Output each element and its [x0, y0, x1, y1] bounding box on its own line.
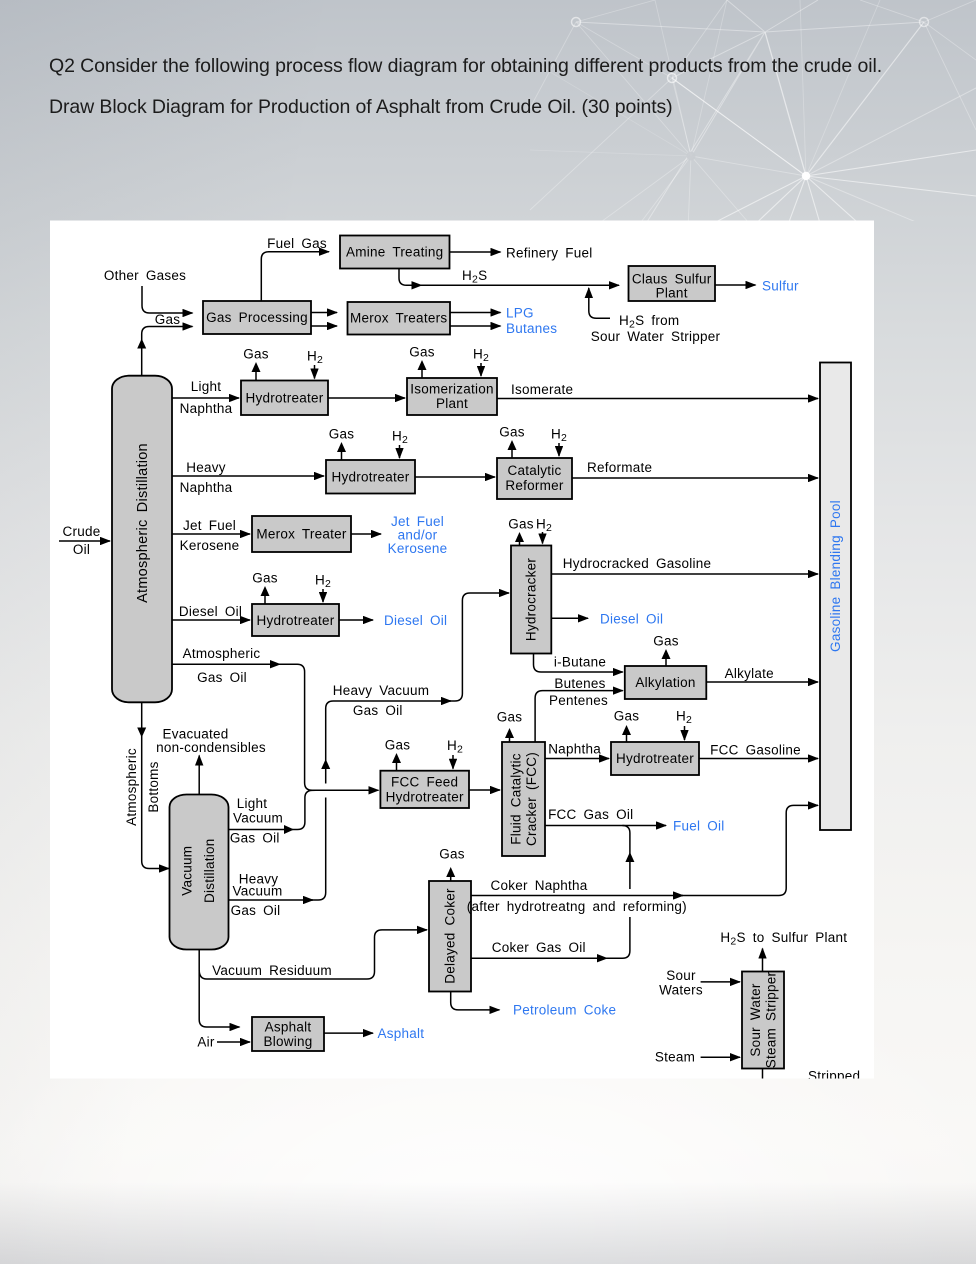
wire: jet fuel kerosene [172, 533, 250, 535]
wire: refinery fuel [450, 251, 501, 253]
stub: gas up HT1 [255, 371, 257, 381]
wire: HT1 to isomerization [328, 397, 405, 399]
svg-text:Catalytic: Catalytic [507, 463, 561, 478]
svg-text:Steam: Steam [655, 1050, 695, 1065]
svg-text:non-condensibles: non-condensibles [156, 740, 266, 755]
wire: diesel oil out [339, 619, 373, 621]
title line 2 [49, 96, 673, 119]
wire: atmospheric bottoms [142, 702, 169, 868]
box: Fluid Catalytic Cracker [502, 742, 545, 856]
svg-text:Vacuum: Vacuum [232, 884, 282, 899]
wire: ffht to fcc [469, 789, 500, 791]
svg-text:Stripped: Stripped [808, 1069, 860, 1084]
wire: crude oil feed [59, 540, 110, 542]
svg-text:Butanes: Butanes [506, 321, 557, 336]
svg-text:(after hydrotreatng and reform: (after hydrotreatng and reforming) [467, 899, 687, 914]
svg-text:Bottoms: Bottoms [146, 761, 161, 812]
wire: butenes pentenes [535, 691, 623, 742]
box: Merox Treater [252, 516, 351, 552]
arrowhead: bottoms down [137, 728, 146, 738]
svg-text:Gas Oil: Gas Oil [230, 831, 280, 846]
svg-text:Gas: Gas [385, 738, 411, 753]
box: Claus Sulfur Plant [629, 266, 716, 301]
svg-text:Fuel Gas: Fuel Gas [267, 236, 327, 251]
svg-text:Isomerization: Isomerization [410, 382, 494, 397]
svg-text:Atmospheric Distillation: Atmospheric Distillation [135, 443, 151, 603]
svg-text:Crude: Crude [62, 524, 100, 539]
svg-text:Gas: Gas [252, 571, 278, 586]
wire: fuel gas line [261, 252, 329, 301]
box: FCC Feed Hydrotreater [380, 771, 469, 808]
svg-text:FCC Gasoline: FCC Gasoline [710, 743, 801, 758]
stub: H2 down HT2 [399, 445, 401, 458]
svg-text:Cracker (FCC): Cracker (FCC) [524, 752, 539, 846]
svg-text:Reformer: Reformer [505, 478, 564, 493]
svg-text:Sour Water: Sour Water [748, 983, 763, 1057]
arrowhead: gas up [137, 339, 146, 349]
svg-text:LPG: LPG [506, 306, 534, 321]
svg-text:Gas Processing: Gas Processing [206, 310, 308, 325]
svg-text:Refinery Fuel: Refinery Fuel [506, 246, 593, 261]
box: Hydrotreater 1 [241, 381, 328, 416]
svg-text:Plant: Plant [656, 286, 688, 301]
svg-text:Merox Treaters: Merox Treaters [350, 311, 447, 326]
arrowhead: hvgo up [321, 759, 330, 769]
svg-text:Diesel Oil: Diesel Oil [384, 613, 447, 628]
box: Alkylation [625, 666, 707, 699]
stub: H2 down ffht [452, 755, 454, 769]
wire: vacuum residuum [199, 950, 239, 1028]
svg-text:Alkylate: Alkylate [725, 666, 774, 681]
svg-text:Claus Sulfur: Claus Sulfur [632, 272, 712, 287]
svg-text:Naphtha: Naphtha [180, 480, 233, 495]
wire: heavy naphtha [172, 475, 324, 477]
svg-text:Hydrotreater: Hydrotreater [616, 751, 694, 766]
svg-text:Kerosene: Kerosene [180, 538, 240, 553]
wire: gas processing to merox 2 [311, 325, 337, 327]
svg-text:Gas: Gas [243, 347, 269, 362]
svg-text:Asphalt: Asphalt [378, 1026, 425, 1041]
stub: gas up reformer [511, 449, 513, 458]
stub: gas up alkylation [665, 658, 667, 666]
svg-text:Gas: Gas [409, 345, 435, 360]
svg-text:H2S from: H2S from [619, 313, 679, 331]
wire: steam [701, 1056, 740, 1058]
stub: H2 down isom [480, 363, 482, 376]
stub: gas up coker [450, 876, 452, 881]
wire: sulfur [715, 284, 756, 286]
svg-text:Delayed Coker: Delayed Coker [443, 888, 458, 984]
wire: evacuated non-condensibles [198, 756, 200, 795]
svg-text:Gas: Gas [497, 710, 523, 725]
box: Catalytic Reformer [497, 458, 572, 499]
stub: H2 down HT1 [314, 365, 316, 379]
stub: H2 down hc [542, 532, 544, 544]
svg-text:Alkylation: Alkylation [635, 675, 695, 690]
arrowhead: lvgo right [284, 825, 294, 834]
wire: diesel oil from column [172, 619, 250, 621]
svg-text:Gas Oil: Gas Oil [197, 670, 247, 685]
svg-text:Diesel Oil: Diesel Oil [600, 612, 663, 627]
wire: fcc gas oil / fuel oil [545, 825, 666, 827]
box: Hydrotreater 2 [326, 460, 415, 494]
box: Hydrotreater 3 [252, 604, 339, 636]
svg-text:Butenes: Butenes [554, 676, 605, 691]
wire: reformate [572, 477, 818, 479]
svg-text:Reformate: Reformate [587, 460, 652, 475]
svg-text:Gas: Gas [155, 312, 181, 327]
box: Asphalt Blowing [252, 1017, 324, 1051]
svg-text:Vacuum Residuum: Vacuum Residuum [212, 963, 332, 978]
svg-text:Diesel Oil: Diesel Oil [179, 604, 242, 619]
svg-text:Blowing: Blowing [263, 1034, 312, 1049]
svg-text:Hydrotreater: Hydrotreater [386, 790, 464, 805]
box: Hydrotreater 4 [611, 742, 699, 775]
svg-text:Gas: Gas [508, 517, 534, 532]
svg-text:Atmospheric: Atmospheric [124, 748, 139, 826]
wire: alkylate [706, 681, 818, 683]
wire: petroleum coke [451, 992, 500, 1010]
box: Delayed Coker [429, 881, 471, 992]
wire: H2S from sour water stripper [589, 288, 610, 318]
svg-text:FCC Feed: FCC Feed [391, 775, 458, 790]
wire: H2S to claus [419, 284, 619, 286]
svg-text:H2S to Sulfur Plant: H2S to Sulfur Plant [720, 930, 847, 948]
node rings and dots [572, 18, 581, 27]
svg-text:Naphtha: Naphtha [180, 401, 233, 416]
svg-text:Fuel Oil: Fuel Oil [673, 819, 725, 834]
svg-text:Gas Oil: Gas Oil [353, 703, 403, 718]
stub: gas up fcc [509, 737, 511, 742]
stub: gas up HT3 [264, 595, 266, 604]
svg-text:Pentenes: Pentenes [549, 693, 608, 708]
title line 1 [49, 55, 882, 78]
svg-text:Hydrotreater: Hydrotreater [256, 613, 334, 628]
svg-text:Asphalt: Asphalt [265, 1020, 312, 1035]
wire: LPG [450, 312, 501, 314]
wire: light naphtha [172, 397, 239, 399]
wire: coker naphtha [471, 895, 683, 897]
svg-text:Heavy Vacuum: Heavy Vacuum [333, 683, 430, 698]
wire: heavy vacuum gas oil up [229, 899, 314, 901]
box: Amine Treating [340, 236, 450, 269]
box: Gasoline Blending Pool [820, 363, 851, 831]
wire: HT2 to reformer [415, 476, 495, 478]
svg-text:Oil: Oil [73, 542, 90, 557]
wire: isomerate [497, 398, 818, 400]
column: Atmospheric Distillation [112, 376, 172, 703]
svg-text:Atmospheric: Atmospheric [183, 646, 261, 661]
wire: air [217, 1041, 250, 1043]
box: Merox Treaters [348, 302, 451, 335]
svg-text:Hydrotreater: Hydrotreater [331, 470, 409, 485]
box: Sour Water Steam Stripper [742, 972, 784, 1069]
svg-text:Gas: Gas [439, 847, 465, 862]
svg-text:Hydrocracked Gasoline: Hydrocracked Gasoline [563, 556, 712, 571]
svg-text:Waters: Waters [659, 983, 703, 998]
stub: H2 down HT3 [322, 589, 324, 602]
box: Gas Processing [203, 301, 311, 334]
svg-text:Sour: Sour [666, 968, 696, 983]
svg-text:Light: Light [191, 379, 222, 394]
svg-text:FCC Gas Oil: FCC Gas Oil [548, 807, 633, 822]
svg-text:Fluid Catalytic: Fluid Catalytic [509, 753, 524, 845]
svg-text:Distillation: Distillation [202, 838, 217, 903]
svg-text:Petroleum Coke: Petroleum Coke [513, 1003, 616, 1018]
column: Vacuum Distillation [170, 795, 229, 950]
wire: atmospheric gas oil [172, 663, 280, 665]
svg-text:Steam Stripper: Steam Stripper [764, 971, 779, 1068]
stub: H2 down HT4 [684, 726, 686, 740]
svg-text:Amine Treating: Amine Treating [346, 245, 443, 260]
wire: sour waters [701, 981, 740, 983]
svg-text:Light: Light [237, 796, 268, 811]
wire: asphalt out [324, 1032, 373, 1034]
svg-text:Heavy: Heavy [186, 460, 226, 475]
svg-text:Gas: Gas [329, 427, 355, 442]
wire: H2S from amine [399, 269, 422, 286]
svg-text:Vacuum: Vacuum [233, 811, 283, 826]
wire: gas from column [142, 327, 193, 376]
svg-text:Air: Air [197, 1035, 215, 1050]
wire: i-butane [534, 654, 623, 672]
wire: hc diesel oil [551, 617, 588, 619]
svg-text:i-Butane: i-Butane [554, 655, 606, 670]
svg-text:Other Gases: Other Gases [104, 268, 186, 283]
stub: gas up hc [519, 541, 521, 546]
svg-text:Hydrotreater: Hydrotreater [245, 391, 323, 406]
svg-text:Kerosene: Kerosene [388, 541, 448, 556]
svg-text:Merox Treater: Merox Treater [256, 527, 347, 542]
plexus decoration top right [0, 0, 976, 221]
svg-text:Naphtha: Naphtha [548, 742, 601, 757]
stub: gas up HT2 [341, 451, 343, 460]
svg-text:Jet Fuel: Jet Fuel [183, 518, 236, 533]
wire: jet fuel out [351, 533, 381, 535]
wire: other gases [142, 286, 193, 313]
svg-text:Coker Gas Oil: Coker Gas Oil [492, 940, 586, 955]
svg-text:Isomerate: Isomerate [511, 382, 573, 397]
svg-text:Gasoline Blending Pool: Gasoline Blending Pool [828, 500, 843, 652]
stub: gas up HT4 [626, 734, 628, 742]
wire: stripped water down [762, 1069, 764, 1079]
svg-text:Gas Oil: Gas Oil [231, 903, 281, 918]
stub: gas up ffht [396, 762, 398, 771]
arrowhead: coker gas oil up [625, 852, 634, 862]
wire: naphtha to HT4 [545, 758, 609, 760]
wire: h2s to sulfur plant [762, 949, 764, 972]
box: Hydrocracker [511, 546, 551, 654]
wire: fcc feed line [313, 789, 379, 791]
wire: hydrocracked gasoline [551, 573, 818, 575]
white panel [50, 221, 874, 1079]
svg-text:Sour Water Stripper: Sour Water Stripper [591, 329, 721, 344]
svg-text:Vacuum: Vacuum [180, 846, 195, 896]
box: Isomerization Plant [407, 378, 497, 415]
stub: H2 down reformer [558, 443, 560, 456]
wire: gas processing to merox 1 [311, 312, 337, 314]
svg-text:Coker Naphtha: Coker Naphtha [490, 878, 587, 893]
svg-text:Gas: Gas [614, 709, 640, 724]
wire: Butanes [450, 325, 501, 327]
wire: light vacuum gas oil [229, 790, 317, 829]
svg-text:Gas: Gas [499, 425, 525, 440]
svg-text:Plant: Plant [436, 396, 468, 411]
wire: coker gas oil [471, 957, 607, 959]
stub: gas up isom [421, 369, 423, 378]
svg-text:Hydrocracker: Hydrocracker [524, 558, 539, 642]
svg-text:Gas: Gas [653, 634, 679, 649]
wire: fcc gasoline [699, 758, 818, 760]
svg-text:Sulfur: Sulfur [762, 279, 799, 294]
